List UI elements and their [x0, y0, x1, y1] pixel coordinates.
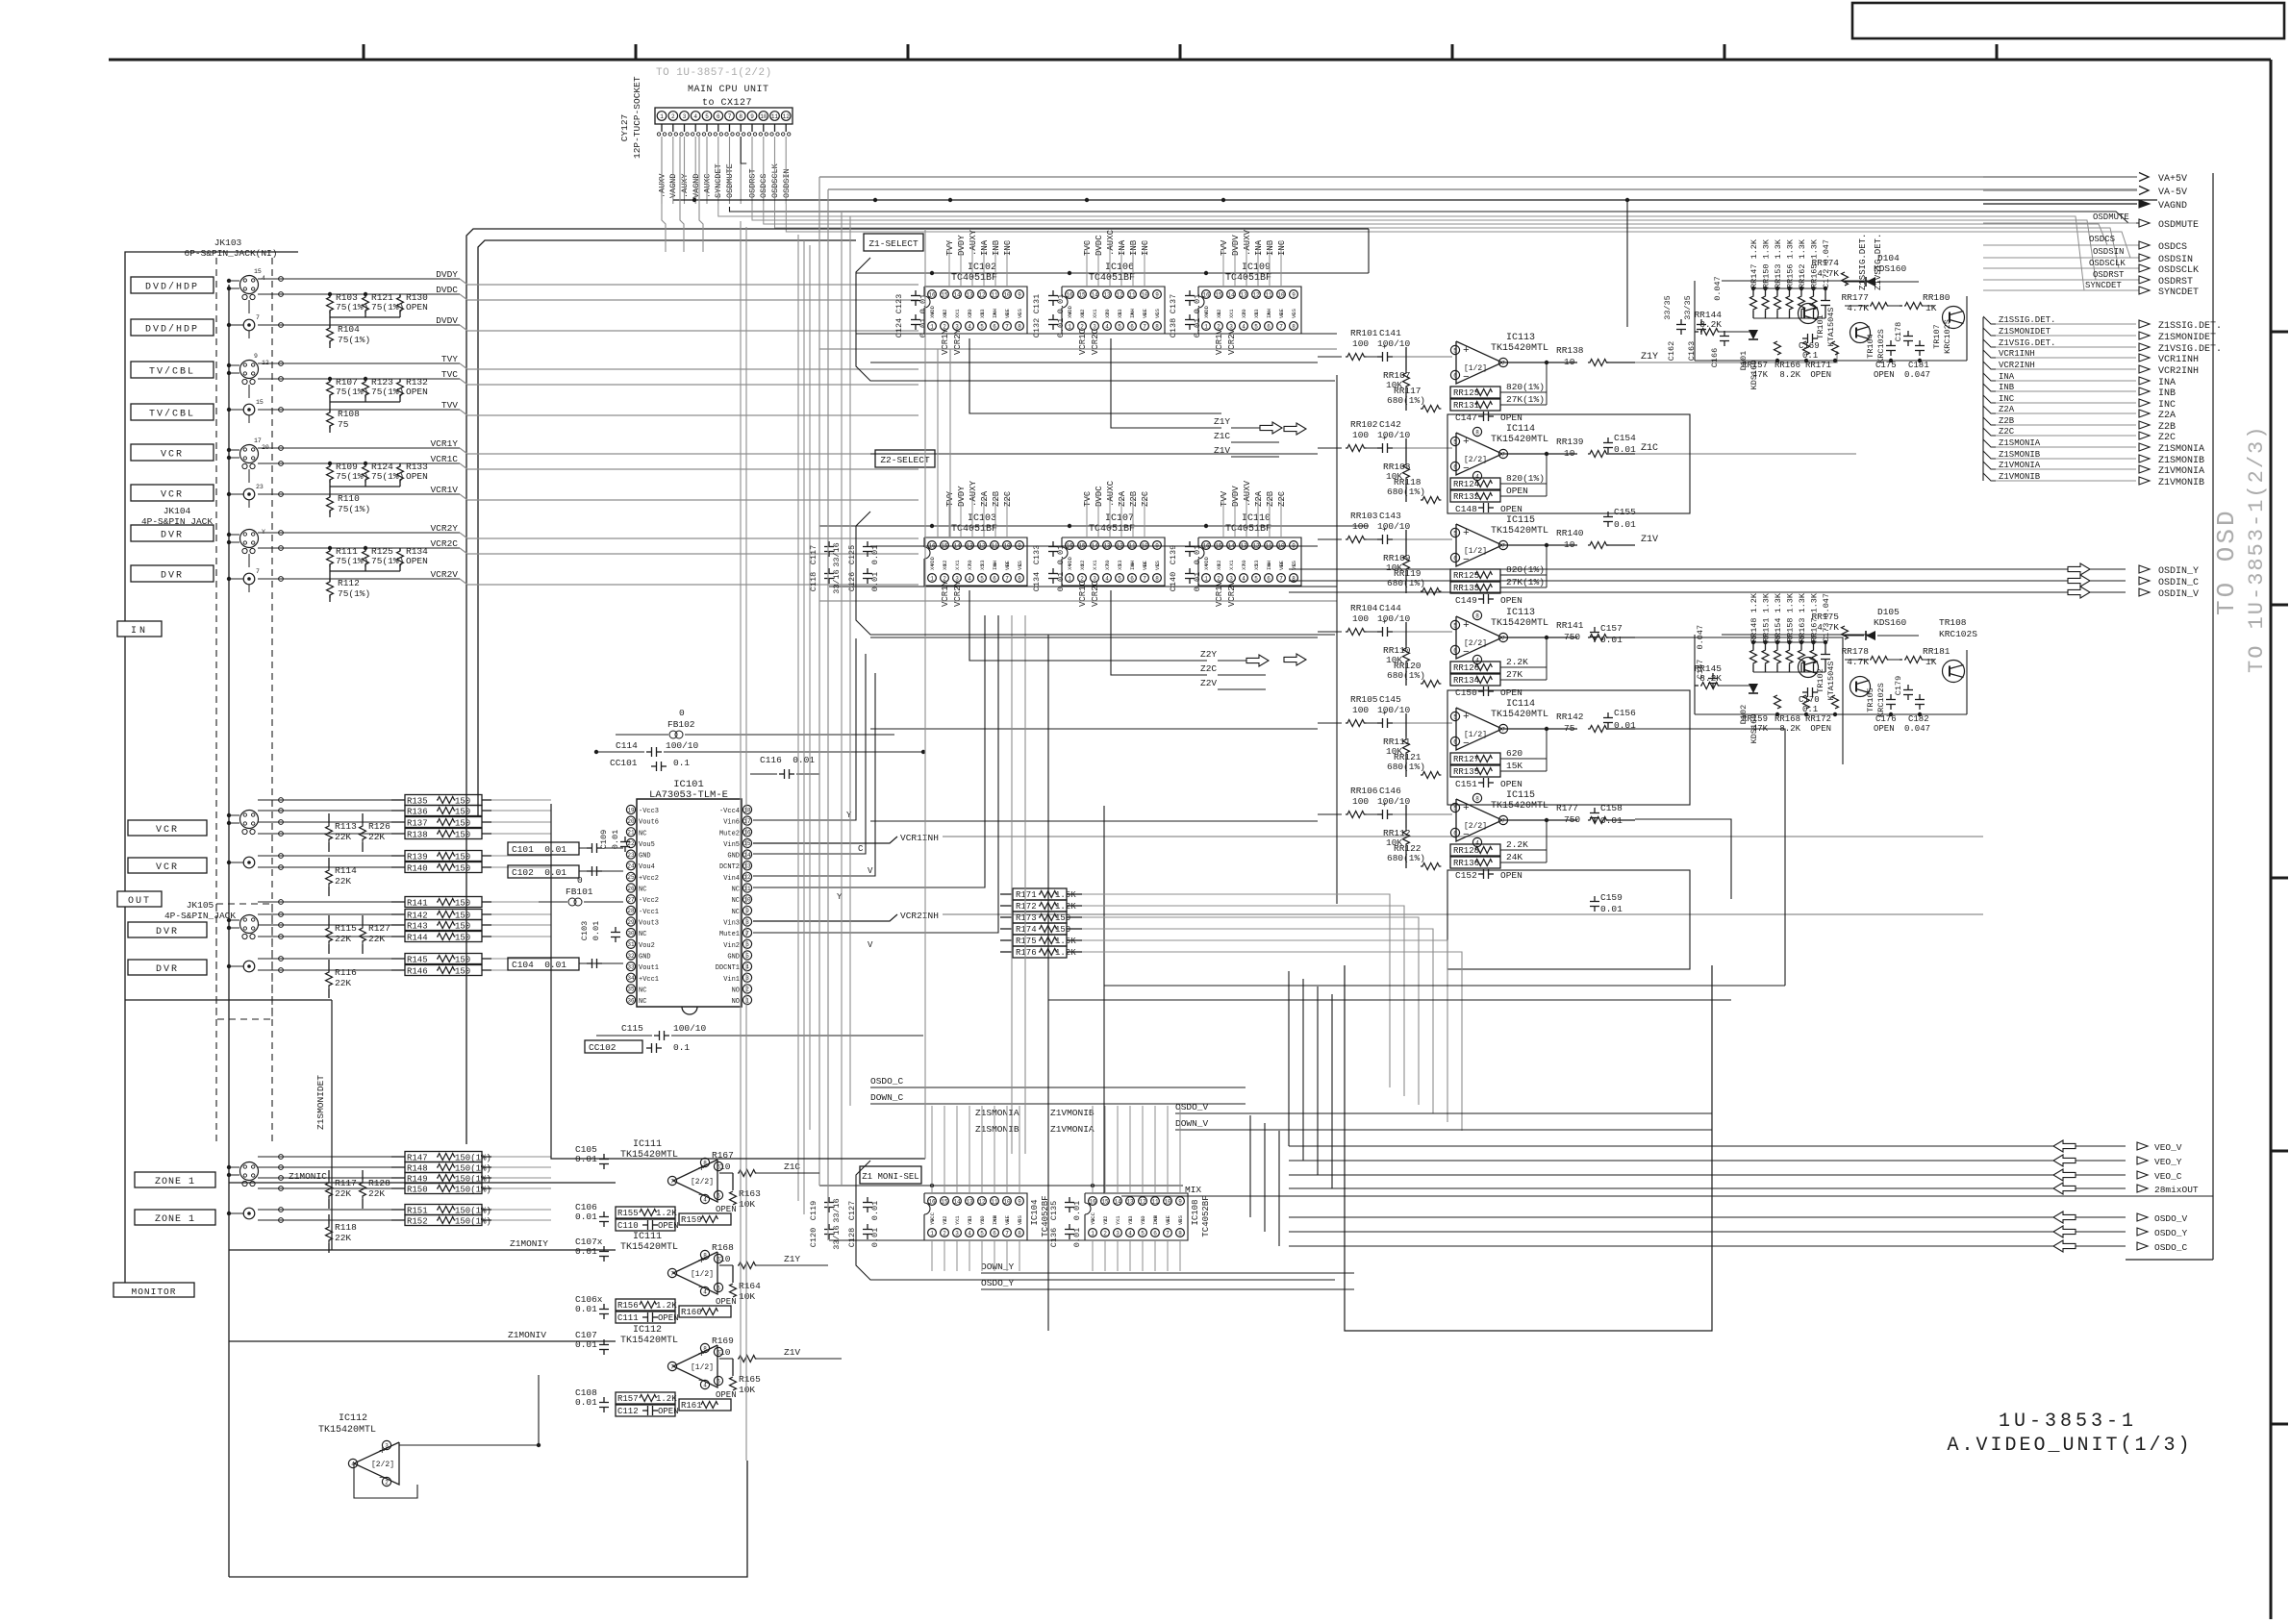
svg-text:IC112: IC112 — [633, 1325, 662, 1336]
wire OSDO_V ext — [1375, 1112, 1712, 1114]
svg-text:750: 750 — [1564, 814, 1580, 825]
resistor R140 150 — [391, 862, 491, 874]
resistor R136 150 — [391, 806, 491, 817]
svg-text:14: 14 — [953, 291, 961, 298]
svg-text:IC111: IC111 — [633, 1232, 662, 1242]
svg-text:29: 29 — [627, 919, 635, 926]
resistor R112 — [327, 578, 371, 602]
svg-text:INH: INH — [992, 1215, 998, 1225]
svg-text:RR177: RR177 — [1841, 292, 1869, 303]
svg-text:10: 10 — [1564, 448, 1575, 459]
capacitor C167 0.047 — [1696, 625, 1718, 688]
vertical bus x875 — [841, 212, 843, 1186]
svg-text:150: 150 — [455, 956, 470, 965]
svg-text:7: 7 — [1501, 542, 1505, 549]
svg-text:1.2K: 1.2K — [656, 1301, 677, 1311]
svg-text:9: 9 — [1018, 1198, 1021, 1205]
svg-text:Z1VMONIA: Z1VMONIA — [1999, 461, 2041, 470]
svg-text:TR102: TR102 — [1816, 668, 1825, 693]
svg-text:R104: R104 — [338, 324, 360, 335]
net OSDIN_C — [1289, 575, 2199, 588]
transistor TR107 KRC102S — [1932, 307, 1965, 354]
RCA jack row8 — [227, 568, 260, 592]
svg-text:KDS160: KDS160 — [1874, 617, 1907, 628]
svg-text:15: 15 — [941, 291, 948, 298]
svg-text:C: C — [858, 844, 864, 854]
svg-text:6: 6 — [1453, 738, 1457, 745]
svg-text:Y2: Y2 — [942, 1218, 948, 1225]
wire IC101 C out — [753, 654, 866, 854]
svg-text:X7: X7 — [1241, 563, 1247, 570]
resistor R152 150(1%) — [391, 1215, 491, 1227]
resistor array RR148-RR167 C173 — [1749, 592, 1831, 672]
svg-text:IC113: IC113 — [1506, 333, 1535, 343]
dashed jack column right — [271, 258, 273, 1144]
svg-text:R171: R171 — [1016, 890, 1037, 900]
svg-text:R165: R165 — [739, 1374, 761, 1385]
label JK103 — [214, 237, 242, 248]
border tick top 6 — [1724, 44, 1726, 60]
box output VCR 1 — [128, 820, 207, 836]
svg-text:OSDCS: OSDCS — [2089, 235, 2115, 244]
svg-text:R152: R152 — [407, 1217, 428, 1227]
svg-text:DVD/HDP: DVD/HDP — [145, 324, 199, 336]
resistor R150 150(1%) — [391, 1184, 491, 1195]
box input DVD/HDP 2 — [131, 319, 214, 336]
svg-text:27: 27 — [627, 897, 635, 904]
svg-text:IC115: IC115 — [1506, 515, 1535, 526]
wire Z1Y right — [1635, 351, 1837, 362]
vertical bus x1090 — [1047, 635, 1049, 1331]
svg-text:Z1C: Z1C — [1641, 443, 1658, 454]
net OSDIN_V — [1289, 587, 2199, 600]
wire right bus bottom — [2126, 1259, 2213, 1261]
border tick top 1 — [363, 44, 365, 60]
svg-text:10: 10 — [743, 897, 751, 904]
svg-text:V: V — [868, 940, 873, 950]
capacitor C117 33/16 — [809, 541, 842, 567]
svg-text:OUT: OUT — [128, 896, 151, 907]
svg-text:X5: X5 — [1117, 563, 1123, 570]
label 4P-S&PIN_JACK — [141, 516, 213, 527]
output jack 1 — [227, 811, 259, 835]
svg-text:16: 16 — [1089, 1198, 1096, 1205]
svg-text:6: 6 — [1453, 830, 1457, 837]
svg-text:TC4051BF: TC4051BF — [1089, 273, 1135, 284]
resistor R128 22K — [360, 1170, 391, 1209]
svg-text:3: 3 — [385, 1442, 389, 1449]
label MIX — [1121, 1185, 2213, 1196]
capacitor CC102 0.1 — [585, 1040, 690, 1053]
svg-text:6: 6 — [993, 1230, 996, 1237]
svg-text:TVV: TVV — [1220, 490, 1229, 507]
svg-text:22K: 22K — [335, 876, 351, 887]
svg-text:NO: NO — [732, 987, 740, 994]
label 12P-TUCP-SOCKET — [632, 76, 642, 159]
svg-text:8: 8 — [1475, 612, 1479, 619]
resistor R118 22K — [326, 1214, 358, 1253]
svg-text:RR132: RR132 — [1453, 492, 1479, 502]
svg-text:IC103: IC103 — [968, 513, 996, 524]
svg-text:OSDRST: OSDRST — [2158, 277, 2193, 287]
wire Z1C right — [1635, 453, 1856, 455]
svg-text:OPEN: OPEN — [1810, 724, 1831, 734]
svg-text:Y2: Y2 — [1102, 1218, 1109, 1225]
border tick right 4 — [2271, 1150, 2288, 1153]
capacitor C104 0.01 — [508, 958, 623, 970]
svg-text:OSDO_C: OSDO_C — [870, 1076, 904, 1087]
svg-text:12: 12 — [978, 1198, 986, 1205]
svg-text:INH: INH — [1129, 309, 1136, 318]
svg-text:0.01: 0.01 — [1614, 720, 1636, 731]
svg-text:11: 11 — [991, 1198, 998, 1205]
svg-text:0.047: 0.047 — [1904, 370, 1930, 380]
wire IC101 Y2 out — [753, 615, 985, 902]
svg-text:C166: C166 — [1710, 348, 1720, 367]
vertical bus x770 — [740, 221, 742, 1376]
net Z1SSIG.DET. — [1983, 315, 2222, 332]
svg-text:0.01: 0.01 — [1193, 294, 1202, 313]
svg-text:INC: INC — [1141, 239, 1150, 256]
svg-text:C179: C179 — [1894, 676, 1903, 695]
svg-text:MIX: MIX — [1185, 1185, 1201, 1195]
svg-text:4: 4 — [351, 1461, 355, 1467]
svg-text:DVDC: DVDC — [1095, 235, 1104, 256]
svg-text:INH: INH — [992, 561, 998, 570]
svg-text:16: 16 — [928, 1198, 936, 1205]
svg-text:5: 5 — [1141, 1230, 1145, 1237]
net Z1VSIG.DET. — [1983, 338, 2222, 355]
svg-text:C104 0.01: C104 0.01 — [512, 960, 566, 970]
resistors R109 R124 R133 — [327, 462, 429, 494]
svg-text:C162: C162 — [1667, 341, 1676, 361]
capacitor C156 0.01 — [1603, 708, 1636, 731]
vertical bus x884 — [849, 216, 851, 1106]
net VCR2INH — [1983, 361, 2199, 377]
svg-text:X6: X6 — [1079, 563, 1086, 570]
svg-text:0.01: 0.01 — [575, 1304, 597, 1314]
svg-text:C156: C156 — [1614, 708, 1636, 718]
svg-text:Z2C: Z2C — [2158, 433, 2176, 443]
svg-text:IC114: IC114 — [1506, 424, 1535, 435]
dashed JK105 box — [216, 904, 272, 1019]
svg-text:6: 6 — [717, 1378, 720, 1385]
svg-text:75(1%): 75(1%) — [336, 387, 368, 397]
wire Z1 row vss rail — [856, 333, 1337, 335]
svg-text:4.7K: 4.7K — [1817, 622, 1839, 633]
svg-text:23: 23 — [627, 852, 635, 859]
svg-text:0: 0 — [577, 875, 583, 886]
net Z2C — [1983, 427, 2176, 443]
svg-text:−: − — [1463, 463, 1470, 475]
svg-text:TC4052BF: TC4052BF — [1201, 1195, 1211, 1237]
net INA — [1983, 372, 2176, 388]
svg-text:Z1VMONIB: Z1VMONIB — [2158, 478, 2204, 488]
title A.VIDEO_UNIT(1/3) — [1947, 1435, 2192, 1457]
svg-text:VCR1INH: VCR1INH — [900, 833, 939, 843]
svg-text:INA: INA — [2158, 378, 2176, 388]
svg-text:DVR: DVR — [161, 571, 184, 582]
svg-text:DVDY: DVDY — [436, 269, 458, 280]
svg-text:DVDY: DVDY — [957, 486, 967, 507]
svg-text:C103: C103 — [580, 921, 590, 940]
diode D101 KDS160 — [1739, 330, 1759, 389]
wire VCR1INH from IC101 — [753, 833, 1983, 843]
svg-text:DVDV: DVDV — [1231, 235, 1241, 256]
svg-text:INH: INH — [1129, 561, 1136, 570]
svg-text:13: 13 — [1103, 291, 1111, 298]
op-amp IC115 [2/2] block — [1318, 786, 1635, 881]
svg-text:7: 7 — [1501, 817, 1505, 824]
svg-text:33: 33 — [627, 963, 635, 970]
svg-text:14: 14 — [1227, 291, 1235, 298]
mux IC102 TC4051BF — [924, 229, 1027, 355]
wire Z1 row lower rail — [819, 348, 1337, 350]
wires MONI-SEL bottom stubs — [932, 1240, 1180, 1271]
capacitor C125 0.01 — [847, 541, 880, 564]
svg-text:6: 6 — [1130, 323, 1134, 330]
svg-text:RR181: RR181 — [1923, 646, 1950, 657]
svg-text:C114: C114 — [616, 740, 638, 751]
svg-text:R146: R146 — [407, 967, 428, 977]
capacitor C109 0.01 — [599, 830, 630, 852]
op-amp IC113 [2/2] block — [1318, 603, 1635, 698]
svg-text:GND: GND — [639, 954, 651, 962]
svg-text:Z1SSIG.DET.: Z1SSIG.DET. — [2158, 321, 2222, 332]
svg-text:9: 9 — [750, 113, 754, 120]
svg-text:75(1%): 75(1%) — [336, 471, 368, 482]
svg-text:DVDC: DVDC — [436, 285, 458, 295]
vertical bus x975 — [937, 349, 939, 538]
svg-text:IC108: IC108 — [1191, 1199, 1200, 1225]
op-amp IC112 [2/2] bottom — [318, 1375, 541, 1498]
svg-text:RR157: RR157 — [1742, 361, 1768, 370]
op-amp IC111 [2/2] bottom — [575, 1139, 800, 1231]
svg-text:Z1MONIY: Z1MONIY — [510, 1238, 548, 1249]
svg-text:100: 100 — [1352, 796, 1369, 807]
svg-text:6: 6 — [1267, 323, 1271, 330]
svg-text:IC102: IC102 — [968, 262, 996, 273]
svg-text:+: + — [1382, 710, 1387, 718]
svg-text:33/35: 33/35 — [1663, 295, 1673, 320]
capacitor C140 0.01 — [1169, 568, 1202, 591]
svg-text:7: 7 — [1501, 635, 1505, 641]
svg-text:680(1%): 680(1%) — [1387, 487, 1425, 497]
resistors R171-R176 — [1000, 888, 1082, 958]
svg-text:4: 4 — [968, 1230, 971, 1237]
svg-text:RR172: RR172 — [1805, 714, 1831, 724]
svg-text:C139: C139 — [1169, 545, 1178, 564]
resistor R110 — [327, 493, 371, 517]
svg-text:VCR2Y: VCR2Y — [430, 523, 458, 534]
label Z1V out — [1214, 445, 1279, 457]
svg-text:Y: Y — [846, 811, 852, 820]
svg-text:6: 6 — [1453, 372, 1457, 379]
svg-text:R112: R112 — [338, 578, 360, 588]
svg-text:Mute2: Mute2 — [719, 830, 740, 837]
svg-text:16: 16 — [928, 291, 936, 298]
svg-text:C116 0.01: C116 0.01 — [760, 755, 815, 765]
svg-text:Z2A: Z2A — [1999, 405, 2015, 414]
svg-text:Z2B: Z2B — [2158, 422, 2176, 433]
svg-text:.AUXY: .AUXY — [969, 229, 978, 256]
svg-text:Z2Y: Z2Y — [1200, 649, 1217, 660]
svg-text:+Vcc1: +Vcc1 — [639, 976, 659, 984]
svg-text:VEO_Y: VEO_Y — [2154, 1157, 2182, 1167]
wire y1040 — [1048, 999, 1731, 1001]
svg-text:32: 32 — [627, 953, 635, 960]
capacitor C154 0.01 — [1603, 433, 1636, 455]
svg-text:VCR1INH: VCR1INH — [2158, 355, 2199, 365]
svg-text:VA-5V: VA-5V — [2158, 187, 2187, 198]
svg-text:OPEN: OPEN — [1874, 370, 1895, 380]
resistor R149 150(1%) — [391, 1173, 491, 1185]
svg-text:1U-3853-1: 1U-3853-1 — [1999, 1411, 2137, 1433]
svg-text:10K: 10K — [739, 1385, 755, 1395]
svg-text:13: 13 — [1240, 291, 1247, 298]
wire label OSDSCLK — [2089, 259, 2126, 268]
svg-text:Z2A: Z2A — [1118, 490, 1127, 507]
svg-text:OSDSIN: OSDSIN — [782, 168, 792, 198]
svg-text:Z2A: Z2A — [980, 490, 990, 507]
svg-text:0.01: 0.01 — [1600, 635, 1623, 645]
svg-text:VCR2C: VCR2C — [430, 538, 458, 549]
svg-text:47K: 47K — [1752, 724, 1769, 734]
svg-text:.AUXC: .AUXC — [1106, 480, 1116, 507]
wire opamp box 4 — [1447, 690, 1690, 805]
wire DVDY/DVDC — [258, 269, 919, 300]
svg-text:RR140: RR140 — [1556, 528, 1584, 538]
net INC — [1983, 394, 2176, 411]
svg-text:CY127: CY127 — [619, 114, 630, 142]
resistor RR145 8.2K — [1694, 663, 1753, 689]
net label SYNCDET pin6 — [714, 163, 723, 198]
svg-text:VCR: VCR — [156, 862, 179, 873]
svg-text:.AUXV: .AUXV — [1243, 229, 1252, 256]
svg-text:RR104: RR104 — [1350, 603, 1378, 613]
svg-text:DVR: DVR — [161, 531, 184, 541]
net OSDRST — [1983, 276, 2193, 287]
svg-text:C175: C175 — [1875, 361, 1897, 370]
svg-text:TVV: TVV — [1220, 239, 1229, 256]
label DOWN_C — [870, 1092, 1246, 1104]
svg-text:Z1C: Z1C — [1214, 431, 1230, 441]
resistor R126 22K — [360, 813, 391, 852]
svg-text:11: 11 — [1151, 1198, 1159, 1205]
net label .AUXC pin5 — [703, 173, 713, 198]
svg-text:1: 1 — [1068, 575, 1071, 582]
svg-text:Z1VSIG.DET.: Z1VSIG.DET. — [2158, 344, 2222, 355]
svg-text:INH: INH — [992, 309, 998, 318]
resistor R114 22K — [326, 858, 358, 896]
svg-text:C110: C110 — [617, 1221, 639, 1231]
svg-text:DVDV: DVDV — [436, 315, 458, 326]
svg-text:TC4051BF: TC4051BF — [1225, 273, 1271, 284]
svg-text:DVDV: DVDV — [1231, 486, 1241, 507]
svg-text:680(1%): 680(1%) — [1387, 395, 1425, 406]
svg-text:VCR2Y: VCR2Y — [953, 580, 963, 607]
svg-text:C154: C154 — [1614, 433, 1636, 443]
net label VAGND pin2 — [668, 173, 678, 198]
arrow opamp in 4 — [1284, 654, 1306, 665]
svg-text:Z1V: Z1V — [784, 1347, 800, 1358]
box output DVR 3 — [128, 922, 207, 937]
svg-text:27K(1%): 27K(1%) — [1506, 394, 1545, 405]
net label OSDMUTE pin7 — [725, 163, 735, 198]
vertical bus x1052 — [1011, 615, 1013, 1154]
svg-text:Z2C: Z2C — [1141, 490, 1150, 507]
svg-text:DVR: DVR — [156, 964, 179, 975]
svg-text:RR125: RR125 — [1453, 571, 1479, 581]
resistor R138 150 — [391, 829, 491, 840]
ferrite FB101 — [539, 875, 623, 906]
svg-text:0.01: 0.01 — [1056, 572, 1066, 591]
wire VCR2V — [258, 569, 919, 585]
svg-text:TC4051BF: TC4051BF — [951, 273, 997, 284]
svg-text:C176: C176 — [1875, 714, 1897, 724]
resistor R116 22K — [326, 960, 358, 998]
resistor R135 150 — [391, 795, 491, 807]
svg-text:12: 12 — [783, 113, 791, 120]
svg-text:5: 5 — [1254, 575, 1258, 582]
svg-text:+: + — [1382, 435, 1387, 443]
svg-text:X4: X4 — [1203, 312, 1210, 318]
svg-text:5: 5 — [1453, 713, 1457, 720]
svg-text:RR134: RR134 — [1453, 676, 1479, 686]
svg-text:750: 750 — [1564, 632, 1580, 642]
svg-text:3: 3 — [1116, 1230, 1120, 1237]
svg-text:7: 7 — [1143, 575, 1146, 582]
svg-text:INH: INH — [1266, 309, 1272, 318]
svg-text:X5: X5 — [1253, 312, 1260, 318]
wires Z2 select inputs — [949, 492, 1281, 537]
svg-text:IC111: IC111 — [633, 1139, 662, 1150]
op-amp IC113 [1/2] block — [1318, 328, 1658, 423]
net OSDIN_Y — [1289, 563, 2199, 577]
svg-text:R161: R161 — [681, 1401, 702, 1411]
svg-text:6: 6 — [1130, 575, 1134, 582]
svg-text:100/10: 100/10 — [673, 1023, 707, 1034]
capacitor C115 100/10 — [596, 1023, 923, 1040]
svg-text:RR105: RR105 — [1350, 694, 1378, 705]
svg-text:OSDO_C: OSDO_C — [2154, 1242, 2188, 1253]
svg-text:8: 8 — [1155, 323, 1159, 330]
svg-text:X5: X5 — [1253, 563, 1260, 570]
label DOWN_V — [1175, 1118, 1375, 1130]
svg-text:6: 6 — [1453, 647, 1457, 654]
vertical bus x776 — [745, 227, 747, 1461]
wire label OSDMUTE — [2093, 212, 2129, 222]
svg-text:Vou5: Vou5 — [639, 841, 655, 849]
svg-text:13: 13 — [743, 863, 751, 870]
svg-text:Vin3: Vin3 — [723, 920, 740, 928]
svg-text:R108: R108 — [338, 409, 360, 419]
wire moni frame — [1345, 965, 1712, 1331]
svg-text:-Vcc1: -Vcc1 — [639, 909, 659, 916]
wire pin8 stub — [741, 137, 746, 163]
wire IC101 Y out — [753, 638, 856, 820]
svg-text:8.2K: 8.2K — [1779, 370, 1800, 380]
svg-text:TK15420MTL: TK15420MTL — [1491, 618, 1548, 629]
svg-text:KRC102S: KRC102S — [1876, 329, 1886, 363]
svg-text:0.01: 0.01 — [1056, 294, 1066, 313]
wire y1025 — [1104, 985, 1785, 987]
label 6P-S&PIN_JACK(NI) — [185, 248, 278, 259]
svg-text:NO: NO — [732, 998, 740, 1006]
svg-text:VSS: VSS — [1291, 308, 1297, 318]
svg-text:Z2-SELECT: Z2-SELECT — [880, 455, 930, 465]
resistor R148 150(1%) — [391, 1162, 491, 1174]
